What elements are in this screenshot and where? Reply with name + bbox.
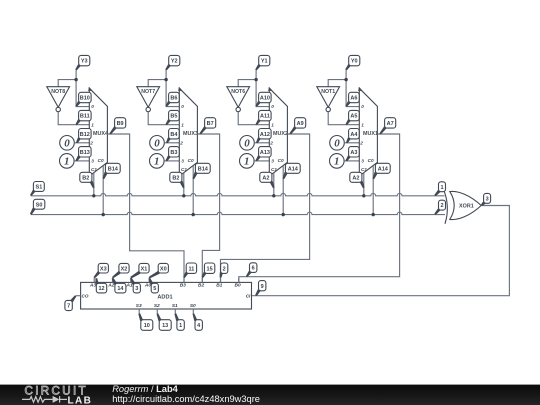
- svg-text:S1: S1: [36, 185, 43, 191]
- svg-text:X3: X3: [100, 266, 107, 272]
- svg-text:2: 2: [179, 140, 183, 145]
- wire constant 1 to MUX input 3: [344, 160, 359, 162]
- svg-text:1: 1: [244, 156, 250, 168]
- inverter NOT8: [47, 87, 70, 112]
- wire branch to NOT1 input: [328, 80, 346, 87]
- multiplexer MUX2: [268, 87, 288, 176]
- svg-text:B11: B11: [80, 114, 90, 120]
- svg-text:A5: A5: [350, 114, 357, 120]
- svg-text:B1: B1: [216, 282, 222, 288]
- svg-text:A3: A3: [89, 282, 96, 288]
- wire C0 select to S0 bus: [372, 166, 374, 215]
- svg-text:X1: X1: [141, 266, 148, 272]
- svg-text:C1: C1: [91, 167, 97, 172]
- svg-text:B0: B0: [235, 282, 241, 288]
- junction on Y3 net: [74, 78, 77, 81]
- junction C1/S1: [92, 194, 95, 197]
- svg-text:2: 2: [440, 203, 443, 209]
- junction C0/S0: [372, 213, 375, 216]
- svg-text:NOT1: NOT1: [321, 89, 335, 95]
- logo resistor + diode glyph: [22, 396, 67, 403]
- svg-text:S2: S2: [154, 303, 160, 309]
- svg-text:1: 1: [64, 156, 70, 168]
- svg-text:14: 14: [117, 286, 124, 292]
- svg-text:CI: CI: [246, 294, 251, 299]
- junction on Y0 net: [344, 78, 347, 81]
- inverter NOT6: [227, 87, 250, 112]
- net flag B6: [165, 92, 179, 107]
- svg-text:NOT6: NOT6: [231, 89, 245, 95]
- net flag 7 (carry out): [65, 295, 77, 310]
- logic constant 0: [60, 136, 75, 151]
- svg-text:A13: A13: [260, 150, 270, 156]
- svg-text:1: 1: [154, 156, 160, 168]
- pin S0 of ADD1: [192, 309, 194, 314]
- svg-text:12: 12: [98, 286, 104, 292]
- svg-text:3: 3: [271, 159, 274, 164]
- svg-text:A3: A3: [350, 150, 357, 156]
- svg-text:B6: B6: [170, 96, 177, 102]
- svg-text:3: 3: [486, 196, 489, 202]
- net flag B10: [75, 92, 91, 107]
- net flag B5: [166, 110, 180, 125]
- svg-text:0: 0: [244, 138, 250, 150]
- svg-text:C1: C1: [271, 167, 277, 172]
- net flag X3: [94, 263, 109, 278]
- net flag B3: [166, 147, 180, 162]
- wire branch to NOT7 input: [148, 80, 166, 87]
- multiplexer MUX3: [178, 87, 198, 176]
- svg-text:C0: C0: [98, 158, 104, 163]
- wire constant 0 to MUX input 2: [74, 142, 89, 144]
- svg-text:NOT8: NOT8: [51, 89, 65, 95]
- svg-text:0: 0: [91, 104, 94, 109]
- net flag A3: [346, 147, 360, 162]
- inverter NOT7: [137, 87, 160, 112]
- net flag A13: [256, 147, 272, 162]
- wire constant 0 to MUX input 2: [164, 142, 179, 144]
- svg-text:1: 1: [91, 122, 94, 127]
- junction C0/S0: [282, 213, 285, 216]
- svg-text:9: 9: [261, 284, 264, 290]
- net flag A2: [260, 172, 275, 188]
- net flag Y1: [255, 55, 270, 70]
- svg-text:1: 1: [179, 323, 182, 329]
- inverter NOT1: [317, 87, 340, 112]
- net flag 14: [112, 278, 126, 293]
- net flag 3: [130, 278, 140, 293]
- svg-text:0: 0: [154, 138, 160, 150]
- svg-text:C0: C0: [368, 158, 374, 163]
- net flag B9: [110, 118, 126, 135]
- svg-text:A7: A7: [387, 121, 394, 127]
- net flag A7: [380, 118, 396, 135]
- multiplexer MUX4: [88, 87, 108, 176]
- wire Y3 net: flag to MUX input 0: [76, 70, 89, 106]
- net flag B12: [76, 129, 91, 144]
- svg-text:B3: B3: [170, 150, 177, 156]
- net flag 2 (XOR input B): [434, 200, 445, 215]
- svg-text:A14: A14: [378, 166, 389, 172]
- svg-text:A1: A1: [126, 282, 133, 288]
- net flag 12: [95, 278, 106, 293]
- pin S2 of ADD1: [156, 309, 158, 314]
- svg-text:3: 3: [181, 159, 184, 164]
- net flag 13: [157, 313, 172, 330]
- wire C0 select to S0 bus: [192, 166, 194, 215]
- pin CO of ADD1: [76, 295, 81, 297]
- net flag A4: [346, 129, 359, 144]
- svg-text:C1: C1: [181, 167, 187, 172]
- svg-text:13: 13: [162, 323, 168, 329]
- wire C1 select to S1 bus: [183, 173, 185, 196]
- net flag B13: [76, 147, 92, 162]
- wire NOT7 output to MUX input 1: [148, 112, 179, 125]
- svg-text:X0: X0: [160, 266, 167, 272]
- net flag X0: [149, 263, 169, 278]
- svg-text:2: 2: [223, 266, 226, 272]
- net flag Y2: [165, 55, 180, 70]
- svg-text:1: 1: [181, 122, 184, 127]
- svg-text:C0: C0: [278, 158, 284, 163]
- svg-text:C0: C0: [188, 158, 194, 163]
- svg-text:C1: C1: [361, 167, 367, 172]
- net flag X2: [112, 263, 129, 278]
- logic constant 1: [150, 154, 165, 169]
- wire branch to NOT6 input: [238, 80, 256, 87]
- net flag S1: [30, 182, 44, 197]
- net flag 4: [193, 313, 203, 330]
- svg-text:ADD1: ADD1: [157, 294, 172, 300]
- svg-text:MUX2: MUX2: [273, 131, 288, 137]
- net flag B14: [193, 163, 211, 179]
- net flag B11: [76, 110, 92, 125]
- svg-text:Y3: Y3: [81, 59, 88, 65]
- pin A3 of ADD1: [93, 278, 95, 283]
- wire MUX3 output to adder: [197, 134, 219, 282]
- logic constant 0: [330, 136, 345, 151]
- svg-text:A2: A2: [107, 282, 114, 288]
- net flag 3 (XOR output): [481, 193, 491, 206]
- 4-bit adder ADD1 body: [81, 282, 252, 309]
- svg-text:Y2: Y2: [171, 59, 178, 65]
- svg-text:A10: A10: [260, 96, 270, 102]
- svg-text:NOT7: NOT7: [141, 89, 155, 95]
- svg-text:B4: B4: [170, 132, 178, 138]
- svg-text:3: 3: [361, 159, 364, 164]
- logic constant 0: [150, 136, 165, 151]
- pin B1 of ADD1: [220, 278, 222, 283]
- net flag Y0: [345, 55, 360, 70]
- net flag A14: [283, 163, 301, 179]
- wire Y2 net: flag to MUX input 0: [166, 70, 179, 106]
- wire constant 1 to MUX input 3: [74, 160, 89, 162]
- net flag A14: [373, 163, 391, 179]
- svg-text:0: 0: [361, 104, 364, 109]
- pin A2 of ADD1: [112, 278, 114, 283]
- net flag 9 (carry in): [255, 281, 266, 297]
- svg-text:S1: S1: [172, 303, 178, 309]
- wire MUX1 output to adder: [239, 134, 400, 282]
- svg-text:MUX3: MUX3: [183, 131, 198, 137]
- junction C1/S1: [182, 194, 185, 197]
- svg-text:CO: CO: [82, 294, 89, 299]
- wire C1 select to S1 bus: [363, 173, 365, 196]
- logic constant 1: [60, 154, 75, 169]
- svg-text:XOR1: XOR1: [459, 204, 474, 210]
- net flag A2: [350, 172, 365, 188]
- wire C1 select to S1 bus: [93, 173, 95, 196]
- svg-text:0: 0: [334, 138, 340, 150]
- net flag 15: [202, 263, 215, 278]
- net flag B14: [103, 163, 121, 179]
- svg-text:B7: B7: [207, 121, 214, 127]
- wire Y0 net: flag to MUX input 0: [346, 70, 359, 106]
- svg-text:MUX1: MUX1: [363, 131, 378, 137]
- junction C1/S1: [362, 194, 365, 197]
- svg-text:B2: B2: [82, 175, 89, 181]
- svg-text:5: 5: [153, 286, 156, 292]
- multiplexer MUX1: [358, 87, 378, 176]
- wire Y1 net: flag to MUX input 0: [256, 70, 269, 106]
- net flag X1: [130, 263, 149, 278]
- svg-text:1: 1: [271, 122, 274, 127]
- net flag A11: [256, 110, 272, 125]
- svg-text:S0: S0: [190, 303, 196, 309]
- svg-text:10: 10: [144, 323, 150, 329]
- svg-text:B3: B3: [180, 282, 186, 288]
- wire S0 bus: [31, 212, 445, 214]
- net flag 10: [138, 313, 153, 330]
- svg-text:A6: A6: [350, 96, 357, 102]
- pin S1 of ADD1: [174, 309, 176, 314]
- svg-text:A14: A14: [288, 166, 299, 172]
- wire C0 select to S0 bus: [282, 166, 284, 215]
- wire branch to NOT8 input: [58, 80, 76, 87]
- net flag 11: [183, 263, 196, 278]
- pin A1 of ADD1: [130, 278, 132, 283]
- net flag A6: [345, 92, 359, 107]
- pin B2 of ADD1: [201, 278, 203, 283]
- wire constant 1 to MUX input 3: [254, 160, 269, 162]
- pin A0 of ADD1: [148, 278, 150, 283]
- junction C0/S0: [192, 213, 195, 216]
- svg-text:2: 2: [269, 140, 273, 145]
- svg-text:2: 2: [89, 140, 93, 145]
- net flag Y3: [75, 55, 90, 70]
- wire NOT8 output to MUX input 1: [58, 112, 89, 125]
- svg-text:MUX4: MUX4: [93, 131, 108, 137]
- logic constant 1: [330, 154, 345, 169]
- svg-text:B14: B14: [108, 166, 119, 172]
- footer bar: [0, 385, 540, 405]
- wire constant 1 to MUX input 3: [164, 160, 179, 162]
- svg-text:Y1: Y1: [261, 59, 268, 65]
- net flag B4: [166, 129, 179, 144]
- svg-text:LAB: LAB: [68, 395, 93, 405]
- net flag B7: [200, 118, 216, 135]
- wire NOT6 output to MUX input 1: [238, 112, 269, 125]
- junction on Y1 net: [254, 78, 257, 81]
- logic constant 0: [240, 136, 255, 151]
- net flag B2: [170, 172, 185, 188]
- wire C1 select to S1 bus: [273, 173, 275, 196]
- wire constant 0 to MUX input 2: [344, 142, 359, 144]
- svg-text:1: 1: [440, 185, 443, 191]
- svg-text:6: 6: [252, 266, 255, 272]
- svg-text:0: 0: [64, 138, 70, 150]
- pin B0 of ADD1: [238, 278, 240, 283]
- svg-text:A12: A12: [260, 132, 270, 138]
- svg-text:A2: A2: [352, 175, 359, 181]
- svg-text:A4: A4: [350, 132, 358, 138]
- svg-text:2: 2: [359, 140, 363, 145]
- wire MUX2 output to adder: [221, 134, 310, 282]
- net flag A5: [346, 110, 360, 125]
- svg-text:X2: X2: [121, 266, 128, 272]
- svg-text:Y0: Y0: [351, 59, 358, 65]
- net flag 5: [148, 278, 158, 293]
- svg-text:http://circuitlab.com/c4z48xn9: http://circuitlab.com/c4z48xn9w3qre: [112, 394, 260, 404]
- svg-text:B12: B12: [80, 132, 90, 138]
- svg-text:15: 15: [207, 266, 213, 272]
- junction C0/S0: [102, 213, 105, 216]
- svg-text:0: 0: [181, 104, 184, 109]
- net flag B2: [80, 172, 95, 188]
- svg-text:0: 0: [271, 104, 274, 109]
- net flag 1 (XOR input A): [434, 182, 445, 196]
- wire NOT1 output to MUX input 1: [328, 112, 359, 125]
- svg-text:1: 1: [361, 122, 364, 127]
- svg-text:B2: B2: [172, 175, 179, 181]
- svg-text:B5: B5: [170, 114, 177, 120]
- svg-text:B13: B13: [80, 150, 90, 156]
- net flag 2: [220, 263, 228, 278]
- svg-text:A2: A2: [262, 175, 269, 181]
- net flag A10: [255, 92, 271, 107]
- svg-text:3: 3: [135, 286, 138, 292]
- wire XOR1 output to adder CI: [252, 206, 510, 296]
- logic constant 1: [240, 154, 255, 169]
- xor gate XOR1: [443, 189, 481, 224]
- svg-text:7: 7: [67, 304, 70, 310]
- net flag S0: [30, 199, 45, 215]
- net flag A9: [290, 118, 306, 135]
- svg-text:S3: S3: [136, 303, 142, 309]
- net flag 1: [174, 313, 184, 330]
- svg-text:B10: B10: [80, 96, 90, 102]
- wire constant 0 to MUX input 2: [254, 142, 269, 144]
- svg-text:11: 11: [188, 266, 194, 272]
- net flag 6: [246, 263, 257, 277]
- svg-text:B2: B2: [198, 282, 204, 288]
- net flag A12: [256, 129, 271, 144]
- wire S1 bus: [31, 193, 445, 195]
- pin B3 of ADD1: [183, 278, 185, 283]
- junction C1/S1: [272, 194, 275, 197]
- svg-text:A9: A9: [297, 121, 304, 127]
- wire MUX4 output to adder: [107, 134, 184, 282]
- svg-text:A11: A11: [260, 114, 270, 120]
- junction on Y2 net: [164, 78, 167, 81]
- svg-text:3: 3: [91, 159, 94, 164]
- wire C0 select to S0 bus: [102, 166, 104, 215]
- svg-text:S0: S0: [36, 202, 43, 208]
- svg-text:B14: B14: [198, 166, 209, 172]
- svg-text:B9: B9: [117, 121, 124, 127]
- svg-text:1: 1: [334, 156, 340, 168]
- svg-text:Rogerrm / Lab4: Rogerrm / Lab4: [112, 384, 178, 394]
- pin S3 of ADD1: [138, 309, 140, 314]
